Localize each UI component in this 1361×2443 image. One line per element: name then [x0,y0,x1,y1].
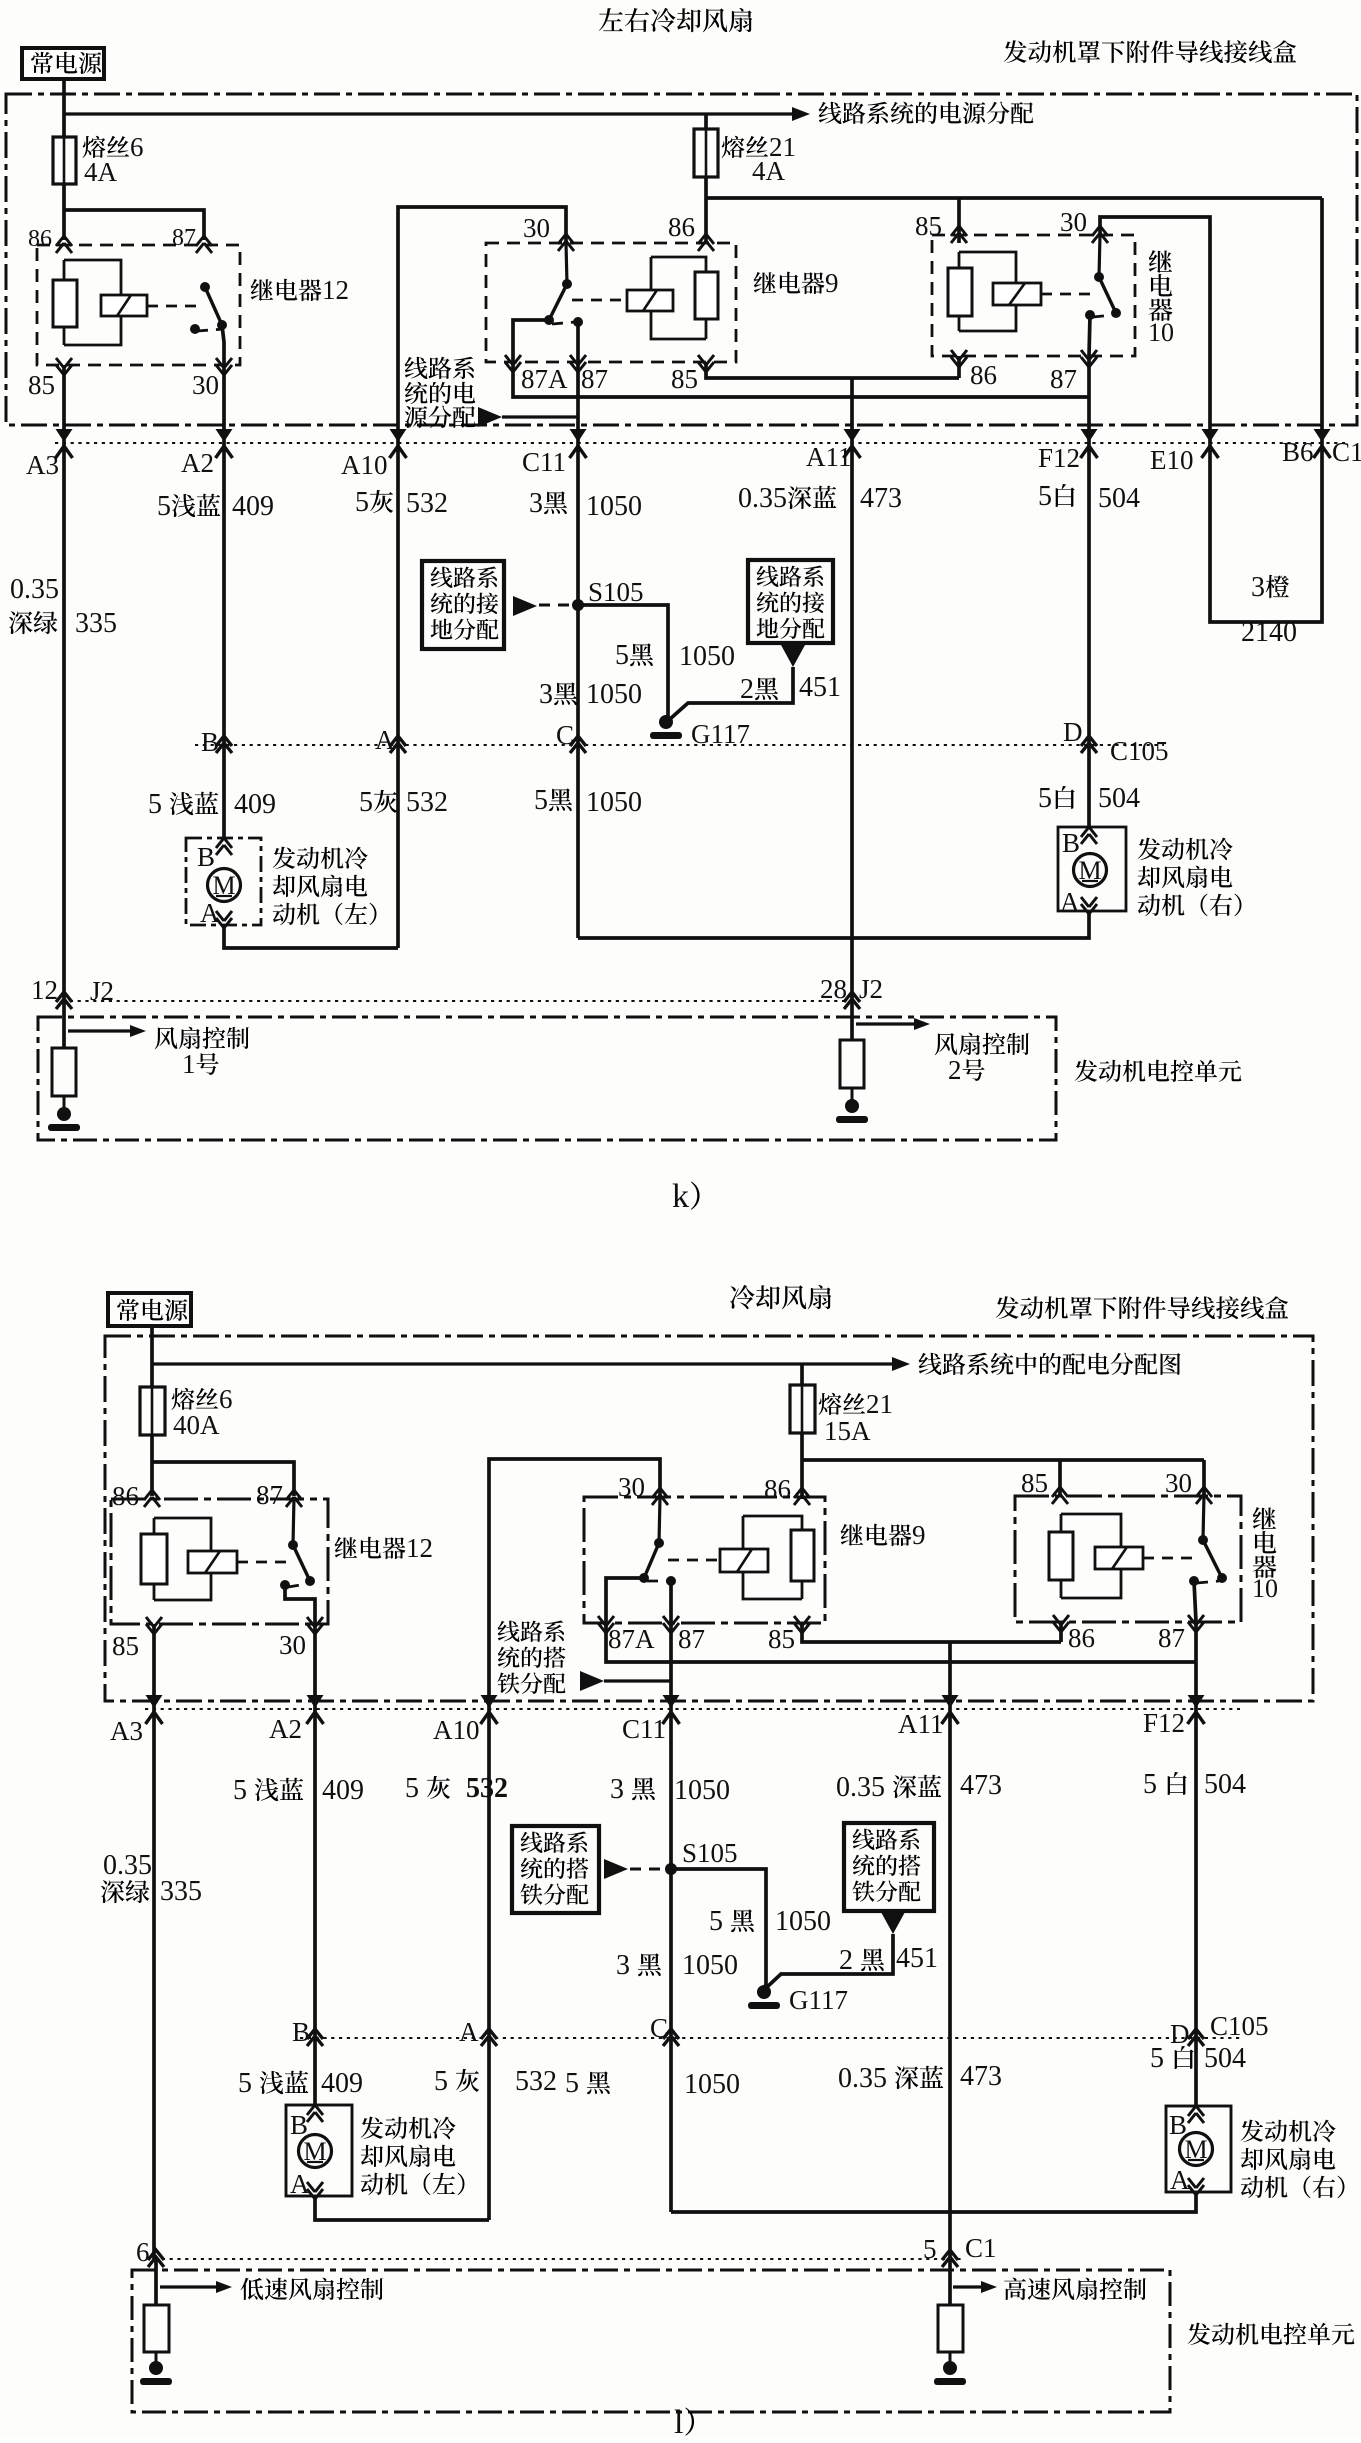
title: 冷却风扇 [730,1285,831,1309]
svg-text:5: 5 [405,1773,419,1804]
pin85 arrow (relay10 l) [1052,1487,1068,1504]
svg-text:5: 5 [148,789,162,820]
relay K9 box (l) [584,1497,825,1623]
connector chevron A3 (l) [146,1695,163,1724]
label 5白 [1038,481,1075,512]
pin 86 arrow (l) [144,1490,160,1507]
wire: relay9 pin85 bus [706,362,959,378]
label C11 [522,447,566,477]
relay10 switch blade [1099,277,1116,313]
label 409 (lower l) [321,2068,363,2099]
svg-text:4A: 4A [84,157,118,187]
relay12l switch blade [293,1545,310,1581]
relay10l blade end dot [1217,1573,1227,1583]
svg-text:30: 30 [279,1630,306,1660]
label 0.35 深绿 [9,574,59,634]
pin 87 label (relay12 l) [256,1480,283,1510]
svg-text:87: 87 [1050,364,1077,394]
svg-text:6: 6 [219,1384,233,1414]
wire A10 seg (l) [487,1709,491,2038]
connector chevron F12 [1081,429,1098,458]
wire: pin30 to pivot (relay9 l) [659,1497,660,1543]
label 12 [31,975,58,1005]
label 5 灰 (lower l) [434,2066,479,2097]
svg-text:A: A [375,725,395,755]
label 发动机电控单元 (l) [1188,2323,1355,2345]
label: 线路系统的电源分配 [819,102,1034,124]
label A11 (l) [898,1709,944,1739]
wire: relay12l pin30 to A2 [313,1624,317,1709]
svg-text:5: 5 [355,487,369,518]
svg-text:3: 3 [616,1950,630,1981]
svg-text:k: k [672,1178,689,1215]
svg-text:87: 87 [581,364,608,394]
label 1050 (lower l) [684,2069,740,2100]
svg-text:C: C [556,720,574,750]
label: 发动机罩下附件导线接线盒 [1004,40,1296,63]
svg-text:85: 85 [915,211,942,241]
connector chevron D (l) [1188,2029,1204,2046]
motor left M symbol (l) [299,2135,332,2168]
label 发动机冷却风扇电动机（左）(l) [361,2117,465,2196]
label 409 (lower) [234,789,276,820]
svg-text:5: 5 [233,1775,247,1806]
svg-text:532: 532 [466,1773,508,1804]
label 2 黑 (l) [839,1945,884,1976]
label 2140 [1241,617,1297,648]
connector chevron C11 [570,429,587,458]
svg-text:J2: J2 [90,976,114,1006]
pin 87 arrow into relay12 [196,236,212,253]
relay9l switch pivot [654,1538,664,1548]
pin 87 arrow (l) [286,1490,302,1507]
svg-text:4A: 4A [752,156,786,186]
svg-text:9: 9 [825,268,839,298]
junction box border (l) [105,1336,1313,1701]
ground G117 [650,715,682,739]
label 1050 (below S105 l) [682,1950,738,1981]
svg-text:2140: 2140 [1241,617,1297,648]
label: 熔丝6 4A [83,132,144,187]
svg-text:28: 28 [820,974,847,1004]
motor: 发动机冷却风扇电动机(左) box [186,838,261,925]
pin 87 label (relay10) [1050,364,1077,394]
connector chevron 6 (l) [148,2250,164,2267]
wire: fuse21 drop [704,114,708,129]
ground fan-low (l) [140,2361,172,2385]
wire C11 seg (l) [669,1709,673,2038]
svg-text:5: 5 [565,2068,579,2099]
wire: A11 tap [850,378,854,443]
label 0.35 深蓝 (lower l) [838,2063,943,2094]
wire: 2黑 451 to ground (l) [766,1934,893,1988]
wire: power distribution bus [64,107,810,121]
pin 87 label (relay9 l) [678,1624,705,1654]
wire: relay10l 87 to F12 [1194,1622,1198,1709]
relay10 blade end dot [1111,308,1121,318]
label E10 [1150,445,1194,475]
label 532 (lower l) [515,2066,557,2097]
motor right M symbol [1074,854,1107,887]
pin 87A label (relay9) [521,364,568,394]
wire: contact to 87 (l) [1194,1581,1196,1622]
label 5 黑 (lower l) [565,2068,610,2099]
svg-text:12: 12 [322,275,349,305]
ground distribution pointer S105 [513,596,578,616]
label: 发动机罩下附件导线接线盒 (l) [996,1296,1288,1319]
svg-text:504: 504 [1204,1769,1246,1800]
label 335 (l) [160,1876,202,1907]
ECU input resistor (fan2) [840,1040,864,1088]
svg-text:504: 504 [1098,483,1140,514]
svg-text:409: 409 [321,2068,363,2099]
svg-text:87: 87 [1158,1623,1185,1653]
svg-text:S105: S105 [682,1838,738,1868]
connector chevron F12 (l) [1188,1695,1205,1724]
label 高速风扇控制 [1004,2278,1146,2300]
pin30 arrow into relay9 [558,234,574,251]
87 exit arrow (relay10 l) [1188,1615,1204,1632]
label l) [674,2404,694,2441]
wire: relay12 pin30 to A2 [222,365,226,443]
wire to ground fan-high (l) [949,2352,952,2366]
svg-text:D: D [1170,2019,1190,2049]
wire: relay10 pin86 down [957,356,961,378]
wire: pin87 leg [1089,315,1090,356]
relay9 armature link (dashed) [572,299,627,302]
wire: 87A to F12 junction [513,362,1089,397]
svg-text:335: 335 [75,608,117,639]
wire: A10 riser to relay9 pin30 [398,207,566,443]
wire F12 segment (5白 504) [1087,443,1091,745]
connector chevron A10 (l) [481,1695,498,1724]
svg-text:1050: 1050 [775,1906,831,1937]
motor right pin B arrow [1062,827,1097,858]
label A (l) [459,2017,479,2047]
label 继电器10 (vertical) [1148,250,1174,347]
wire: 87A leg (l) [606,1578,644,1621]
label 473 (l) [960,1770,1002,1801]
arrow: 风扇控制1号 [68,1025,146,1037]
label 5黑 (lower) [534,785,572,816]
relay9 armature box [627,290,673,311]
svg-text:86: 86 [668,212,695,242]
pin 86 label (relay12 l) [112,1481,139,1511]
label G117 (l) [789,1985,848,2015]
wire to ground (fan2) [851,1088,854,1104]
label C11 (l) [622,1714,666,1744]
pin85 arrow into relay10 [951,226,967,243]
svg-text:5: 5 [238,2068,252,2099]
wire: 87A contact leg [513,320,549,362]
wire: S105 branch to G117 (5黑 1050) [578,605,668,722]
ground distribution box G117 (l) [844,1823,934,1911]
connector chevron 12 J2 [56,992,72,1009]
wire: 87 contact leg [576,322,580,362]
pin 30 label (relay10) [1060,207,1087,237]
pin 86 label (relay9) [668,212,695,242]
svg-text:C: C [650,2013,668,2043]
svg-text:87: 87 [172,225,196,251]
label 3黑 (below S105) [539,679,577,710]
relay12l switch pivot [288,1540,298,1550]
relay12l blade end dot [305,1576,315,1586]
label 409 (l) [322,1775,364,1806]
85 exit arrow (l) [146,1617,162,1634]
wire to ground fan-low (l) [155,2352,158,2366]
relay10l armature link [1143,1557,1196,1560]
pin 85 label (relay9) [671,364,698,394]
motor right pin A arrow [1060,887,1097,917]
svg-text:409: 409 [232,491,274,522]
svg-text:451: 451 [896,1943,938,1974]
svg-text:10: 10 [1252,1574,1278,1603]
wire: fuse6 to relay12 pin86 [62,184,66,240]
label 5黑 [615,640,653,671]
wire: pin30 to pivot [1099,235,1100,277]
relay10 pin87 contact dot [1085,310,1095,320]
pin 87 label (relay9) [581,364,608,394]
wire A segment (5灰 532) [396,745,400,948]
label A [375,725,395,755]
ground (fan2) [836,1099,868,1123]
arrow: 高速风扇控制 [953,2281,997,2293]
pin 86 label (relay10) [970,360,997,390]
svg-text:30: 30 [1060,207,1087,237]
svg-text:87A: 87A [521,364,568,394]
label 504 (l) [1204,1769,1246,1800]
node S105 [572,599,584,611]
ECU resistor fan-low (l) [144,2305,169,2352]
wire C11 segment (3黑 1050) [576,443,580,745]
svg-text:335: 335 [160,1876,202,1907]
connector chevron A3 [56,429,73,458]
svg-text:5: 5 [1143,1769,1157,1800]
label: 线路系统的搭铁分配 (upper) [497,1621,565,1694]
relay9l switch blade [644,1543,659,1578]
wire: corner to relay10 pin30 (l) [1202,1460,1206,1496]
label 5浅蓝 [157,491,220,522]
wire C seg lower (l) [669,2038,673,2212]
node S105 (l) [665,1863,677,1875]
svg-text:3: 3 [529,488,543,519]
label 0.35深蓝 [738,483,836,514]
connector chevron 28 J2 [844,992,860,1009]
label J2 (left) [90,976,114,1006]
svg-text:5: 5 [157,491,171,522]
svg-text:85: 85 [112,1631,139,1661]
svg-text:J2: J2 [859,974,883,1004]
fuse F21 (熔丝21 4A) [694,129,718,177]
relay10l switch blade [1203,1540,1222,1578]
svg-text:B: B [197,842,215,872]
label 473 (lower l) [960,2061,1002,2092]
label 继电器12 (l) [335,1533,433,1563]
label A3 (l) [110,1716,143,1746]
ECU box (l) [132,2270,1170,2412]
label 5 灰 (l) [405,1773,450,1804]
connector chevron A11 [844,429,861,458]
pin86 arrow (l) [794,1488,810,1505]
svg-text:0.35: 0.35 [103,1850,152,1881]
wire: relay12 pin85 to A3 [62,365,66,443]
motor left pin A (l) [290,2169,323,2199]
wire: relay10 pin87 to F12 [1087,356,1091,443]
86 exit arrow [951,350,967,367]
svg-text:0.35: 0.35 [838,2063,887,2094]
wire: relay9l 87 to C11 [669,1623,673,1709]
relay9l coil loop wire [743,1516,802,1599]
svg-text:B: B [290,2110,308,2140]
wire: horizontal bus y1460 (l) [802,1458,1204,1462]
relay10 coil [948,252,972,331]
svg-text:G117: G117 [789,1985,848,2015]
ground distribution pointer S105 (l) [604,1859,671,1879]
svg-text:A: A [1060,887,1080,917]
label 409 [232,491,274,522]
label A11 [806,442,852,472]
label 发动机冷却风扇电动机（左） [273,847,377,926]
pin 30 label (relay9) [523,213,550,243]
relay9l coil [791,1530,814,1599]
wire: motor left return to 532 [224,925,398,948]
pin 85 label (relay10) [915,211,942,241]
label 1050 (lower) [586,787,642,818]
svg-text:30: 30 [523,213,550,243]
label 1050 [586,491,642,522]
motor right pin A (l) [1170,2165,1204,2195]
relay12l armature link [237,1561,286,1564]
power source label box 常电源 (l) [108,1293,191,1326]
svg-text:C1: C1 [965,2233,997,2263]
label D [1063,717,1083,747]
fuse F6 (熔丝6 4A) [53,137,76,184]
relay10l contact dashed stub [1197,1581,1219,1583]
motor left pin B (l) [290,2105,323,2140]
svg-text:532: 532 [406,488,448,519]
label 504 (lower) [1098,783,1140,814]
relay12l contact dashed stub [288,1584,307,1587]
relay10 switch pivot [1094,272,1104,282]
relay9l armature box [720,1549,768,1572]
relay9 contact dashed stub [552,322,575,324]
label: 熔丝6 40A [172,1384,233,1440]
ground distribution box (G117) [748,560,833,643]
87 exit arrow [1081,350,1097,367]
arrow: 风扇控制2号 [856,1018,930,1030]
svg-text:3: 3 [1251,572,1265,603]
relay12 coil [53,260,77,345]
svg-text:473: 473 [960,1770,1002,1801]
label 发动机冷却风扇电动机（右） [1138,838,1242,917]
wire: branch to relay12 pin87 [64,210,204,240]
svg-text:5: 5 [615,640,629,671]
pin30 arrow (l) [652,1488,668,1505]
connector chevron A10 [390,429,407,458]
label 继电器9 (l) [841,1520,926,1550]
arrow: ground distribution pointer (upper l) [580,1671,671,1691]
wire: drop to relay10 pin85 [957,198,961,243]
pin85 exit arrow [56,358,72,375]
wire: horizontal bus to B6 [706,196,1322,200]
ground distribution box S105 (l) [512,1826,599,1913]
connector chevron C11 (l) [663,1695,680,1724]
svg-text:2: 2 [740,674,754,705]
wire to ground (fan1) [63,1096,66,1112]
relay10 coil loop wire [959,252,1016,331]
svg-text:12: 12 [406,1533,433,1563]
relay10l coil [1049,1514,1073,1598]
ECU box 发动机电控单元 [38,1017,1056,1140]
label 335 [75,608,117,639]
ground G117 (l) [748,1985,780,2009]
svg-text:87A: 87A [608,1624,655,1654]
svg-text:F12: F12 [1143,1708,1185,1738]
relay10l coil loop wire [1061,1514,1121,1598]
wire A11 segment (0.35深蓝 473) [850,443,854,1001]
connector chevron A11 (l) [942,1695,959,1724]
wire: 87 leg (l) [669,1581,673,1623]
pin 86 label (relay12) [28,226,52,252]
svg-text:409: 409 [322,1775,364,1806]
relay12 switch contact [190,324,200,334]
wire A2 seg (l) [313,1709,317,2038]
wire: branch to relay12 pin87 (l) [152,1462,294,1496]
svg-text:D: D [1063,717,1083,747]
wire: battery feed (l) [150,1326,154,1387]
label k) [672,1178,700,1215]
connector row J2 (dotted) [62,1000,852,1002]
relay10 armature box [993,283,1041,305]
svg-text:5: 5 [709,1906,723,1937]
wire: relay12l pin85 to A3 [152,1624,156,1709]
svg-text:85: 85 [768,1624,795,1654]
relay9 switch blade [549,284,567,320]
wire: drop to relay10 pin85 (l) [1058,1460,1062,1496]
motor: 发动机冷却风扇电动机(右) box [1058,827,1126,911]
wire: relay10 pin30 to E10 [1100,217,1210,443]
wire A2 segment (5浅蓝 409) [222,443,226,745]
relay12 armature link (dashed) [147,305,196,308]
connector row ECU dotted (l) [154,2258,962,2260]
wire: power bus (l) [152,1357,910,1371]
wire: blade to pin30 [222,325,224,365]
wire: pin12 into ECU [62,1001,66,1048]
wire A3 (l) 0.35深绿335 [152,1709,156,2259]
label 451 [799,672,841,703]
svg-text:86: 86 [764,1474,791,1504]
label 2黑 [740,674,778,705]
svg-text:S105: S105 [588,577,644,607]
relay9 pin87 contact dot [573,317,583,327]
svg-text:504: 504 [1204,2043,1246,2074]
svg-text:C11: C11 [622,1714,666,1744]
svg-text:l: l [674,2404,683,2438]
label C1 (l) [965,2233,997,2263]
wire: fuse21 to bus (l) [800,1433,804,1499]
label C1 [1332,437,1361,467]
label 5 浅蓝 [148,789,218,820]
svg-text:A2: A2 [269,1714,302,1744]
label 5 浅蓝 (lower l) [238,2068,308,2099]
svg-text:C1: C1 [1332,437,1361,467]
svg-text:5: 5 [1038,783,1052,814]
relay9 coil loop wire [651,257,706,339]
pin 85 label (relay9 l) [768,1624,795,1654]
pin30 arrow into relay10 [1092,226,1108,243]
ground distribution pointer G117 (l) [881,1912,905,1934]
relay9 switch pivot [562,279,572,289]
